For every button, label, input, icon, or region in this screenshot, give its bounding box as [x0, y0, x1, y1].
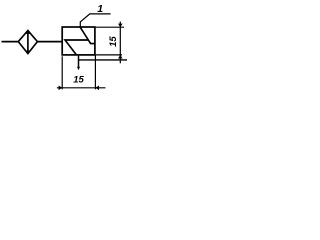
zigzag element inside square: [65, 27, 95, 55]
svg-text:15: 15: [108, 36, 119, 47]
svg-text:15: 15: [73, 75, 84, 86]
filter (diamond with vertical baffle): [18, 31, 37, 54]
ink knot at filter top vertex: [26, 30, 30, 34]
component body U1 (square): [62, 27, 95, 55]
wire: side branch to the right: [79, 59, 128, 61]
wire: pipe between filter and square: [37, 41, 62, 43]
dimension: right vertical 15: [96, 22, 124, 64]
dimension: bottom horizontal 15: [57, 56, 106, 90]
wire: inlet pipe left: [2, 41, 19, 43]
wire: bottom drain stub with arrowhead: [78, 55, 80, 68]
svg-text:1: 1: [97, 3, 103, 15]
leader line for label 1: [80, 14, 110, 28]
ink knot at filter bottom vertex: [26, 51, 29, 54]
